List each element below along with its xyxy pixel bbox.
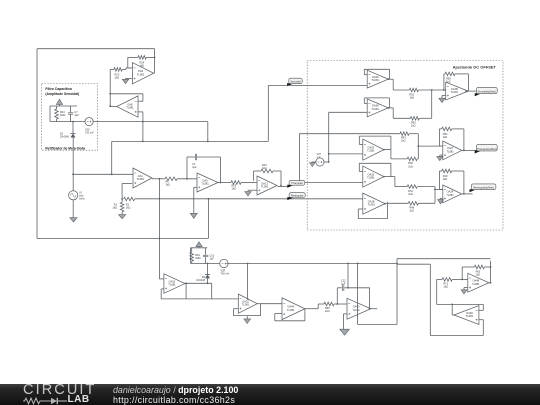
- svg-text:1kΩ: 1kΩ: [115, 76, 120, 80]
- svg-text:TL081: TL081: [446, 149, 454, 153]
- svg-text:1kΩ: 1kΩ: [232, 188, 237, 191]
- svg-text:1kΩ: 1kΩ: [409, 209, 414, 212]
- svg-text:Triangular: Triangular: [291, 181, 303, 185]
- svg-text:TL081: TL081: [472, 282, 480, 286]
- svg-text:1kHz: 1kHz: [79, 197, 85, 200]
- svg-text:TL081: TL081: [168, 283, 176, 287]
- svg-text:700 mV: 700 mV: [85, 131, 94, 134]
- svg-text:1kΩ: 1kΩ: [446, 81, 451, 84]
- svg-text:1kΩ: 1kΩ: [408, 165, 413, 168]
- svg-text:TL081: TL081: [137, 177, 145, 181]
- svg-text:1MΩ: 1MΩ: [60, 114, 65, 117]
- svg-text:1µF: 1µF: [341, 283, 346, 286]
- svg-text:TL081: TL081: [242, 303, 250, 307]
- svg-text:1kΩ: 1kΩ: [126, 207, 131, 210]
- svg-text:1kΩ: 1kΩ: [166, 184, 171, 187]
- svg-text:1 V: 1 V: [317, 156, 321, 159]
- svg-text:1N4148: 1N4148: [196, 279, 205, 282]
- svg-text:700 mV: 700 mV: [221, 272, 230, 275]
- svg-text:Ajustando DC OFFSET: Ajustando DC OFFSET: [453, 64, 497, 69]
- svg-text:1kΩ: 1kΩ: [325, 310, 330, 313]
- svg-text:1kΩ: 1kΩ: [443, 178, 448, 181]
- svg-text:TL081: TL081: [126, 106, 134, 110]
- svg-text:1kΩ: 1kΩ: [476, 274, 481, 277]
- svg-text:TL081: TL081: [368, 203, 376, 207]
- svg-text:TL081: TL081: [372, 78, 380, 82]
- svg-text:TL081: TL081: [367, 176, 375, 180]
- svg-text:1kΩ: 1kΩ: [401, 140, 406, 143]
- svg-text:1kΩ: 1kΩ: [411, 125, 416, 128]
- svg-text:TL081: TL081: [446, 193, 454, 197]
- svg-text:Filtro Capacitivo: Filtro Capacitivo: [45, 87, 72, 91]
- svg-text:TL081: TL081: [466, 314, 474, 318]
- svg-text:TL081: TL081: [451, 90, 459, 94]
- svg-text:1kΩ: 1kΩ: [444, 286, 449, 289]
- svg-text:TL081: TL081: [352, 308, 360, 312]
- svg-text:Triangular(offset): Triangular(offset): [477, 147, 497, 151]
- svg-text:1kΩ: 1kΩ: [262, 167, 267, 170]
- svg-text:1µF: 1µF: [74, 114, 79, 117]
- svg-text:TL081: TL081: [137, 72, 145, 76]
- svg-text:1MΩ: 1MΩ: [195, 257, 200, 260]
- svg-text:TL081: TL081: [367, 149, 375, 153]
- svg-text:1kΩ: 1kΩ: [410, 96, 415, 99]
- svg-text:1kΩ: 1kΩ: [408, 193, 413, 196]
- svg-text:TL081: TL081: [287, 308, 295, 312]
- svg-text:TL081: TL081: [372, 107, 380, 111]
- svg-text:TL081: TL081: [201, 182, 209, 186]
- svg-text:Retangular(offset): Retangular(offset): [473, 186, 494, 190]
- svg-text:Senoidal(offset): Senoidal(offset): [478, 90, 496, 94]
- svg-text:1N4148: 1N4148: [60, 136, 69, 139]
- svg-text:(Amplitude Senoidal): (Amplitude Senoidal): [45, 92, 79, 96]
- svg-text:TL081: TL081: [261, 185, 269, 189]
- svg-text:Retangular: Retangular: [291, 193, 304, 197]
- svg-text:1kΩ: 1kΩ: [112, 207, 117, 210]
- svg-text:1µF: 1µF: [192, 166, 197, 169]
- svg-text:1kΩ: 1kΩ: [443, 136, 448, 139]
- svg-text:Senoidal: Senoidal: [290, 80, 301, 84]
- svg-text:Retificador de Meia-Onda: Retificador de Meia-Onda: [45, 146, 85, 150]
- svg-text:1µF: 1µF: [210, 258, 215, 261]
